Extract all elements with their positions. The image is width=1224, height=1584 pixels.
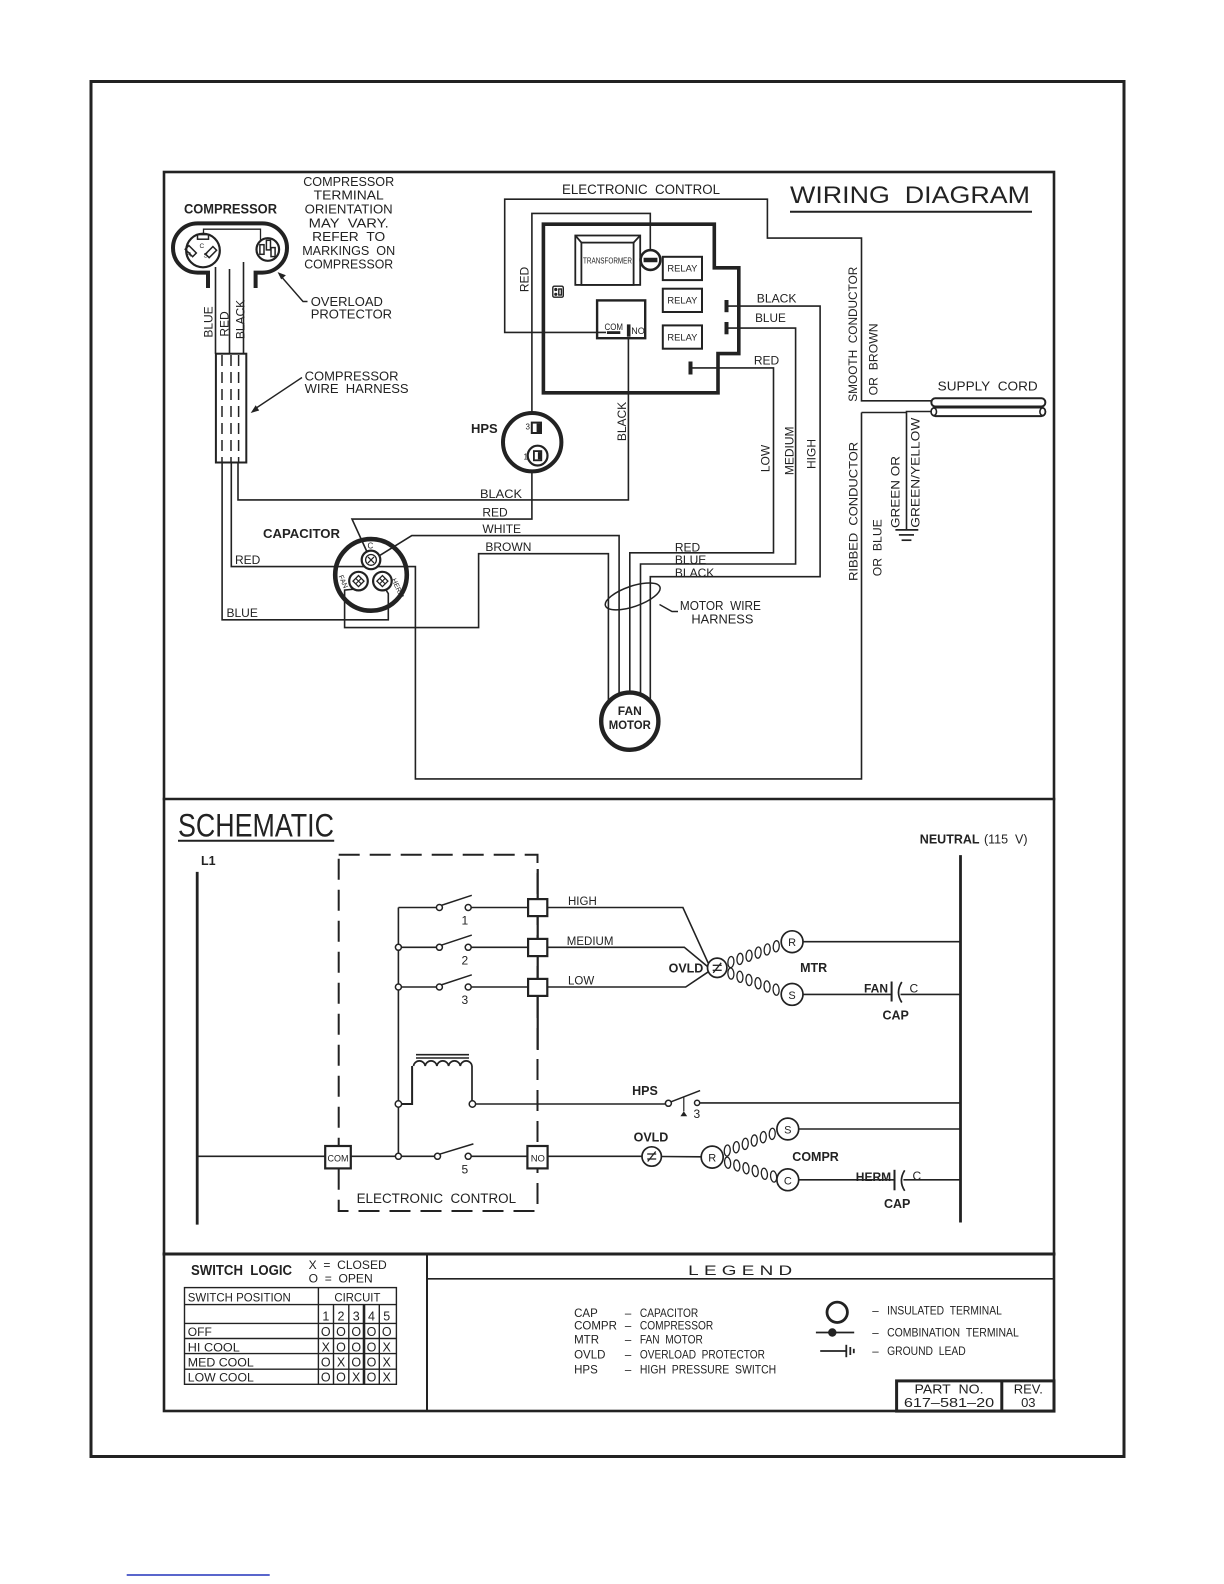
svg-text:CAP: CAP: [884, 1197, 910, 1211]
wire MEDIUM to OVLD: [547, 947, 707, 966]
svg-text:(115 V): (115 V): [984, 833, 1028, 847]
svg-text:CIRCUIT: CIRCUIT: [334, 1290, 381, 1304]
electronic control outer loop wire (to COM and supply): [345, 199, 932, 705]
svg-text:NEUTRAL: NEUTRAL: [920, 833, 980, 847]
svg-text:2: 2: [462, 953, 469, 967]
wire main row COM-NO: [197, 1155, 642, 1157]
svg-text:HPS: HPS: [574, 1365, 598, 1377]
svg-text:5: 5: [383, 1310, 390, 1324]
svg-text:OVLD: OVLD: [669, 961, 704, 975]
wire switch3 row: [401, 986, 528, 988]
terminal R (compressor): [701, 1146, 723, 1168]
svg-text:LOW: LOW: [568, 976, 594, 988]
svg-text:1: 1: [462, 914, 469, 928]
svg-text:SUPPLY CORD: SUPPLY CORD: [938, 379, 1038, 393]
svg-text:COMPRESSOR: COMPRESSOR: [304, 257, 393, 272]
svg-text:HARNESS: HARNESS: [691, 612, 753, 627]
svg-text:NO: NO: [631, 326, 645, 336]
svg-text:RELAY: RELAY: [667, 296, 698, 307]
svg-text:BLUE: BLUE: [202, 306, 216, 337]
svg-text:INSULATED TERMINAL: INSULATED TERMINAL: [887, 1305, 1002, 1317]
wire HPS to neutral: [700, 1102, 960, 1104]
svg-text:O: O: [367, 1325, 377, 1339]
svg-text:RED: RED: [517, 267, 531, 293]
wire switch2 row: [401, 946, 528, 948]
svg-text:X: X: [352, 1371, 361, 1385]
svg-text:3: 3: [694, 1107, 701, 1121]
wire white C-to-motor: [372, 536, 620, 703]
svg-text:3: 3: [526, 423, 531, 432]
wire blue relay-to-motor: [641, 328, 796, 703]
svg-text:S: S: [784, 1125, 791, 1137]
svg-text:HPS: HPS: [471, 421, 498, 436]
svg-text:–: –: [872, 1305, 879, 1317]
wire brown FAN-to-motor: [345, 554, 609, 705]
divider switch-logic/legend: [426, 1254, 428, 1411]
svg-text:BLACK: BLACK: [480, 487, 522, 501]
svg-text:L1: L1: [201, 854, 216, 868]
svg-text:COM: COM: [328, 1154, 349, 1165]
capacitor terminal C: [362, 551, 381, 570]
svg-text:O: O: [321, 1325, 331, 1339]
relay contact square HIGH: [528, 899, 547, 916]
terminal S (motor): [781, 984, 803, 1006]
svg-text:O: O: [351, 1325, 361, 1339]
COM / NO box: [597, 300, 645, 338]
svg-text:S: S: [788, 990, 795, 1002]
svg-text:LOW: LOW: [758, 444, 772, 472]
svg-text:BLACK: BLACK: [234, 300, 248, 339]
svg-text:BROWN: BROWN: [485, 540, 531, 554]
svg-text:COMPR: COMPR: [574, 1321, 617, 1333]
small connector icon: [553, 286, 564, 297]
capacitor circle: [335, 539, 407, 611]
svg-text:MEDIUM: MEDIUM: [783, 426, 797, 475]
svg-text:3: 3: [353, 1310, 360, 1324]
svg-text:CAPACITOR: CAPACITOR: [263, 527, 340, 541]
wire R to neutral: [803, 941, 961, 943]
wire L1 line: [196, 872, 199, 1225]
legend header underline: [427, 1278, 1054, 1280]
svg-text:REFER TO: REFER TO: [312, 229, 385, 244]
capacitor terminal FAN: [349, 572, 368, 591]
svg-text:SWITCH LOGIC: SWITCH LOGIC: [191, 1263, 292, 1279]
compressor terminal circle (C,R,S): [186, 234, 220, 268]
terminal R (motor): [781, 931, 803, 953]
coil motor start: [724, 966, 783, 997]
svg-text:3: 3: [462, 993, 469, 1007]
svg-text:O: O: [367, 1356, 377, 1370]
wire blue compressor-to-HERM: [222, 463, 388, 620]
switch 5: [395, 1144, 473, 1159]
svg-text:ELECTRONIC CONTROL: ELECTRONIC CONTROL: [562, 182, 720, 197]
svg-text:X: X: [383, 1371, 392, 1385]
capacitor terminal HERM: [373, 572, 392, 591]
svg-text:C: C: [368, 542, 374, 551]
wire LOW to OVLD: [547, 972, 708, 987]
svg-text:GREEN OR: GREEN OR: [889, 456, 903, 528]
svg-text:BLACK: BLACK: [615, 402, 629, 441]
inner content box: [164, 172, 1054, 1411]
svg-text:RELAY: RELAY: [667, 332, 698, 343]
wire jumper C to overload: [204, 229, 261, 240]
supply cord cylinders: [931, 398, 1045, 416]
svg-text:O: O: [321, 1371, 331, 1385]
svg-text:RED: RED: [754, 354, 780, 368]
terminal bar blue: [725, 322, 729, 334]
annotation compressor terminal orientation: [302, 174, 395, 272]
transformer (schematic): [402, 1055, 666, 1104]
svg-text:617–581–20: 617–581–20: [904, 1395, 994, 1410]
divider wiring/schematic: [164, 798, 1054, 801]
svg-text:5: 5: [462, 1163, 469, 1177]
terminal letters: [187, 243, 209, 260]
svg-text:–: –: [872, 1346, 879, 1358]
box NO: [527, 1146, 547, 1168]
svg-text:FAN: FAN: [864, 981, 888, 995]
svg-text:MTR: MTR: [574, 1335, 599, 1347]
relay box 1: [663, 257, 702, 349]
svg-text:C: C: [200, 243, 205, 250]
wire squares vertical: [537, 869, 539, 1050]
svg-text:COMPRESSOR: COMPRESSOR: [184, 202, 277, 217]
wires compressor leads (3): [216, 262, 244, 354]
svg-text:X: X: [383, 1340, 392, 1354]
svg-text:BLUE: BLUE: [675, 553, 706, 567]
box COM: [325, 1146, 351, 1168]
svg-text:COMPR: COMPR: [792, 1150, 839, 1164]
relay contact square LOW: [528, 979, 547, 996]
svg-text:NO: NO: [531, 1154, 545, 1165]
wire switch1 row: [398, 907, 528, 909]
title WIRING DIAGRAM: [790, 182, 1032, 212]
svg-text:FAN: FAN: [618, 704, 642, 718]
relay box 2: [663, 289, 702, 312]
capacitor HERM C (schematic): [894, 1170, 896, 1191]
svg-text:R: R: [187, 252, 192, 259]
svg-text:SCHEMATIC: SCHEMATIC: [178, 808, 334, 844]
wire OVLD to R: [661, 1156, 701, 1158]
electronic control dashed box: [339, 855, 538, 1211]
ground symbol: [895, 530, 918, 540]
switch logic table grid: [185, 1288, 397, 1385]
svg-text:R: R: [788, 937, 796, 949]
svg-text:CAP: CAP: [574, 1308, 598, 1320]
svg-text:COMPRESSOR: COMPRESSOR: [640, 1321, 713, 1333]
svg-text:MTR: MTR: [800, 961, 827, 975]
svg-text:S: S: [204, 253, 209, 260]
svg-text:GROUND LEAD: GROUND LEAD: [887, 1346, 966, 1358]
svg-text:MED COOL: MED COOL: [188, 1356, 254, 1370]
switch 3: [395, 975, 471, 990]
svg-text:O: O: [336, 1340, 346, 1354]
legend symbol combination terminal: [816, 1332, 854, 1334]
svg-text:–: –: [625, 1335, 632, 1347]
blue underline mark at page bottom: [127, 1574, 270, 1576]
svg-text:ORIENTATION: ORIENTATION: [305, 202, 393, 217]
svg-text:SMOOTH CONDUCTOR: SMOOTH CONDUCTOR: [846, 266, 860, 401]
svg-text:C: C: [913, 1169, 922, 1183]
svg-text:L E G E N D: L E G E N D: [688, 1263, 792, 1278]
svg-text:HIGH PRESSURE SWITCH: HIGH PRESSURE SWITCH: [640, 1365, 776, 1377]
wire red relay-to-motor: [630, 368, 774, 700]
svg-text:R: R: [708, 1153, 716, 1165]
legend abbreviations: [574, 1308, 776, 1377]
switch 2: [395, 935, 471, 950]
label OVERLOAD PROTECTOR with leader: [311, 294, 392, 321]
svg-text:X: X: [322, 1340, 331, 1354]
svg-text:X = CLOSED: X = CLOSED: [309, 1258, 387, 1272]
svg-text:MOTOR: MOTOR: [609, 718, 651, 732]
svg-text:RED: RED: [235, 553, 261, 567]
svg-text:WIRING DIAGRAM: WIRING DIAGRAM: [790, 182, 1030, 209]
overload symbol (motor): [708, 958, 727, 977]
svg-text:RELAY: RELAY: [667, 264, 698, 275]
wire HIGH to OVLD: [547, 908, 708, 988]
wire black relay-to-motor: [630, 306, 820, 705]
svg-text:O = OPEN: O = OPEN: [309, 1271, 373, 1285]
electronic control board outline: [543, 224, 738, 393]
wire red compressor-to-neutral: [231, 413, 861, 779]
coil motor run: [724, 939, 783, 998]
wire C to herm cap: [799, 1179, 895, 1181]
part no / rev box: [897, 1381, 1054, 1411]
relay contact square MEDIUM: [528, 939, 547, 956]
wire bus vertical: [197, 869, 642, 1156]
compressor COMP outline: [173, 223, 287, 288]
svg-text:SWITCH POSITION: SWITCH POSITION: [188, 1290, 291, 1304]
svg-text:TERMINAL: TERMINAL: [314, 188, 384, 203]
terminal S (compressor): [777, 1118, 799, 1140]
svg-text:4: 4: [368, 1310, 375, 1324]
legend symbol insulated terminal: [827, 1302, 847, 1322]
coil compressor start: [721, 1155, 780, 1184]
svg-text:2: 2: [338, 1310, 345, 1324]
svg-text:WIRE HARNESS: WIRE HARNESS: [305, 381, 409, 396]
svg-text:COMBINATION TERMINAL: COMBINATION TERMINAL: [887, 1327, 1019, 1339]
page border frame: [91, 82, 1124, 1457]
svg-text:O: O: [321, 1356, 331, 1370]
wire HPS-to-capacitor red: [352, 473, 532, 560]
svg-text:HIGH: HIGH: [568, 896, 597, 908]
HPS switch (schematic): [665, 1091, 700, 1107]
svg-text:O: O: [367, 1371, 377, 1385]
svg-text:O: O: [336, 1371, 346, 1385]
svg-text:O: O: [367, 1340, 377, 1354]
svg-text:OVLD: OVLD: [634, 1131, 669, 1145]
svg-text:CAPACITOR: CAPACITOR: [640, 1308, 698, 1320]
svg-text:HERM: HERM: [856, 1170, 891, 1184]
svg-text:O: O: [351, 1340, 361, 1354]
switch 1: [436, 895, 471, 910]
terminal bar red: [689, 362, 693, 375]
capacitor FAN C (schematic): [891, 982, 893, 1002]
svg-text:OR BLUE: OR BLUE: [871, 519, 885, 576]
legend symbol ground lead: [820, 1350, 846, 1352]
transformer (3D box): [575, 236, 640, 285]
svg-text:RED: RED: [482, 506, 508, 520]
svg-text:03: 03: [1021, 1395, 1035, 1410]
svg-text:BLUE: BLUE: [755, 311, 786, 325]
compressor wire harness box: [216, 354, 246, 463]
svg-text:–: –: [625, 1308, 632, 1320]
terminal C (compressor): [777, 1169, 799, 1191]
svg-text:GREEN/YELLOW: GREEN/YELLOW: [908, 417, 922, 528]
svg-text:ELECTRONIC CONTROL: ELECTRONIC CONTROL: [357, 1191, 517, 1206]
svg-text:O: O: [336, 1325, 346, 1339]
svg-text:OVERLOAD PROTECTOR: OVERLOAD PROTECTOR: [640, 1350, 765, 1362]
svg-text:O: O: [382, 1325, 392, 1339]
svg-text:HIGH: HIGH: [805, 439, 819, 469]
terminal bar black: [725, 300, 729, 312]
wire S to neutral (compressor): [799, 1128, 961, 1130]
svg-text:BLUE: BLUE: [227, 606, 258, 620]
svg-text:BLACK: BLACK: [757, 291, 797, 305]
svg-text:–: –: [872, 1327, 879, 1339]
insulated terminal on board: [641, 250, 661, 270]
overload protector circle: [257, 238, 280, 261]
svg-text:–: –: [625, 1365, 632, 1377]
svg-text:BLACK: BLACK: [675, 566, 714, 580]
wire red HPS loop: [532, 213, 650, 411]
wire black compressor-to-NO: [222, 338, 861, 779]
svg-text:RED: RED: [218, 311, 232, 337]
svg-text:–: –: [625, 1321, 632, 1333]
svg-text:C: C: [910, 981, 919, 995]
svg-text:OVLD: OVLD: [574, 1350, 605, 1362]
svg-text:PROTECTOR: PROTECTOR: [311, 306, 392, 321]
svg-text:C: C: [784, 1175, 792, 1187]
coil compressor run: [720, 1126, 780, 1184]
svg-text:CAP: CAP: [883, 1008, 909, 1022]
svg-text:1: 1: [322, 1310, 329, 1324]
wire neutral line: [959, 855, 962, 1222]
svg-text:O: O: [351, 1356, 361, 1370]
svg-text:OFF: OFF: [188, 1325, 212, 1339]
relay box 3: [663, 325, 702, 348]
wire green/yellow ground lead: [862, 412, 932, 530]
svg-text:HI COOL: HI COOL: [188, 1340, 240, 1354]
svg-text:OR BROWN: OR BROWN: [866, 323, 880, 395]
svg-text:LOW COOL: LOW COOL: [188, 1371, 254, 1385]
overload symbol (compressor): [642, 1147, 661, 1166]
svg-text:X: X: [337, 1356, 346, 1370]
svg-text:1: 1: [524, 453, 529, 462]
svg-text:RIBBED CONDUCTOR: RIBBED CONDUCTOR: [847, 442, 861, 581]
svg-text:TRANSFORMER: TRANSFORMER: [583, 257, 632, 266]
HPS circle: [503, 413, 561, 471]
svg-text:WHITE: WHITE: [482, 522, 521, 536]
label COMPRESSOR WIRE HARNESS with leader arrow: [305, 369, 409, 397]
svg-text:–: –: [625, 1350, 632, 1362]
svg-text:HPS: HPS: [632, 1084, 658, 1098]
motor wire harness ellipse: [602, 577, 663, 615]
svg-text:MEDIUM: MEDIUM: [567, 936, 614, 948]
svg-text:FAN MOTOR: FAN MOTOR: [640, 1335, 703, 1347]
svg-text:X: X: [383, 1356, 392, 1370]
wire S to fan cap: [803, 993, 892, 995]
divider schematic/bottom: [164, 1253, 1054, 1256]
fan motor circle: [601, 693, 658, 750]
